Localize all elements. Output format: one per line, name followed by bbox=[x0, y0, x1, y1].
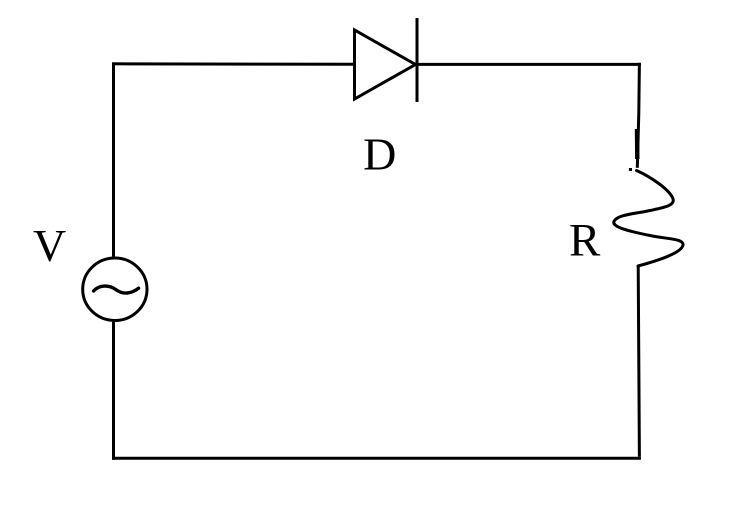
svg-text:R: R bbox=[569, 214, 601, 266]
svg-text:V: V bbox=[33, 220, 66, 271]
svg-text:D: D bbox=[363, 128, 396, 179]
